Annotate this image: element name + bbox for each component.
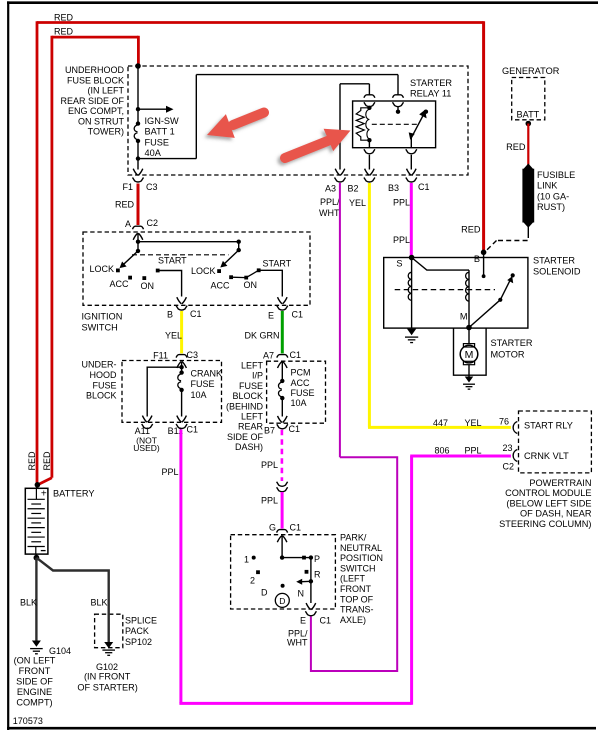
svg-text:C1: C1 xyxy=(290,523,302,533)
svg-text:B7: B7 xyxy=(264,426,275,436)
svg-text:(BEHIND: (BEHIND xyxy=(226,401,264,411)
svg-text:YEL: YEL xyxy=(165,331,182,341)
svg-text:STEERING COLUMN): STEERING COLUMN) xyxy=(499,519,591,529)
svg-text:1: 1 xyxy=(244,555,249,565)
svg-text:SWITCH: SWITCH xyxy=(340,563,376,573)
svg-text:IGNITION: IGNITION xyxy=(82,312,123,322)
svg-text:C1: C1 xyxy=(418,182,430,192)
svg-text:USED): USED) xyxy=(133,443,160,453)
svg-text:FRONT: FRONT xyxy=(19,666,51,676)
svg-text:M: M xyxy=(460,312,468,322)
svg-text:(BELOW LEFT SIDE: (BELOW LEFT SIDE xyxy=(506,498,591,508)
svg-text:WHT: WHT xyxy=(287,638,308,648)
svg-text:(IN FRONT: (IN FRONT xyxy=(84,672,131,682)
svg-text:C1: C1 xyxy=(320,616,332,626)
svg-text:B2: B2 xyxy=(347,184,358,194)
svg-text:R: R xyxy=(314,570,321,580)
svg-text:E: E xyxy=(268,311,274,321)
svg-text:170573: 170573 xyxy=(13,716,43,726)
svg-text:RED: RED xyxy=(461,225,481,235)
svg-text:ENG COMPT,: ENG COMPT, xyxy=(68,106,124,116)
svg-text:TOP OF: TOP OF xyxy=(340,594,374,604)
svg-text:10A: 10A xyxy=(191,390,207,400)
svg-text:UNDER-: UNDER- xyxy=(82,360,117,370)
svg-text:PPL/: PPL/ xyxy=(320,197,340,207)
svg-text:FUSIBLE: FUSIBLE xyxy=(537,170,575,180)
svg-text:LEFT: LEFT xyxy=(241,361,264,371)
svg-text:ACC: ACC xyxy=(211,281,231,291)
svg-text:(LEFT: (LEFT xyxy=(340,574,366,584)
svg-text:TRANS-: TRANS- xyxy=(340,605,374,615)
svg-text:GENERATOR: GENERATOR xyxy=(502,66,560,76)
svg-text:STARTER: STARTER xyxy=(491,338,533,348)
svg-text:MOTOR: MOTOR xyxy=(491,349,525,359)
svg-text:A7: A7 xyxy=(263,351,274,361)
svg-text:LINK: LINK xyxy=(537,181,558,191)
svg-text:STARTER: STARTER xyxy=(533,255,575,265)
svg-text:LOCK: LOCK xyxy=(191,266,216,276)
svg-text:447: 447 xyxy=(433,418,448,428)
svg-text:REAR: REAR xyxy=(238,422,264,432)
svg-text:B: B xyxy=(167,310,173,320)
svg-text:C1: C1 xyxy=(290,350,302,360)
svg-text:FUSE: FUSE xyxy=(291,388,315,398)
svg-text:PCM: PCM xyxy=(291,368,311,378)
svg-text:CONTROL MODULE: CONTROL MODULE xyxy=(505,488,591,498)
svg-text:FUSE BLOCK: FUSE BLOCK xyxy=(67,75,124,85)
svg-text:(IN LEFT: (IN LEFT xyxy=(87,86,124,96)
svg-text:RED: RED xyxy=(54,13,74,23)
svg-text:YEL: YEL xyxy=(465,418,482,428)
svg-text:START: START xyxy=(263,259,292,269)
svg-text:C3: C3 xyxy=(187,350,199,360)
svg-text:HOOD: HOOD xyxy=(90,370,118,380)
svg-text:M: M xyxy=(465,349,474,361)
svg-text:REAR SIDE OF: REAR SIDE OF xyxy=(60,96,124,106)
svg-text:LEFT: LEFT xyxy=(241,412,264,422)
svg-text:LOCK: LOCK xyxy=(89,264,114,274)
svg-text:PACK: PACK xyxy=(125,626,149,636)
svg-text:D: D xyxy=(261,588,268,598)
svg-text:+: + xyxy=(41,488,47,499)
svg-text:WHT: WHT xyxy=(319,208,340,218)
svg-text:G: G xyxy=(269,523,276,533)
svg-text:D: D xyxy=(279,596,285,606)
svg-text:OF DASH, NEAR: OF DASH, NEAR xyxy=(520,509,592,519)
svg-text:BLOCK: BLOCK xyxy=(86,391,117,401)
svg-text:RED: RED xyxy=(506,142,526,152)
svg-text:UNDERHOOD: UNDERHOOD xyxy=(65,65,125,75)
svg-text:C2: C2 xyxy=(503,462,515,472)
svg-text:ON: ON xyxy=(244,280,258,290)
svg-text:PPL: PPL xyxy=(465,446,482,456)
svg-text:ON STRUT: ON STRUT xyxy=(78,116,125,126)
svg-text:B3: B3 xyxy=(388,183,399,193)
svg-text:SP102: SP102 xyxy=(125,637,152,647)
svg-text:G102: G102 xyxy=(96,662,118,672)
svg-text:F1: F1 xyxy=(122,182,133,192)
svg-text:23: 23 xyxy=(503,443,513,453)
svg-text:P: P xyxy=(314,554,320,564)
svg-text:AXLE): AXLE) xyxy=(340,615,366,625)
svg-text:PPL: PPL xyxy=(393,235,410,245)
svg-text:F11: F11 xyxy=(153,351,168,361)
svg-text:ON: ON xyxy=(141,281,155,291)
svg-text:S: S xyxy=(396,259,402,269)
svg-text:C3: C3 xyxy=(146,182,158,192)
svg-text:I/P: I/P xyxy=(252,371,263,381)
svg-text:40A: 40A xyxy=(145,148,162,158)
svg-text:C1: C1 xyxy=(187,425,199,435)
svg-text:PPL: PPL xyxy=(393,198,410,208)
svg-text:TOWER): TOWER) xyxy=(88,127,124,137)
svg-text:C1: C1 xyxy=(289,424,301,434)
svg-text:A3: A3 xyxy=(325,184,336,194)
svg-text:10A: 10A xyxy=(291,398,307,408)
svg-text:DK GRN: DK GRN xyxy=(244,331,279,341)
svg-text:SPLICE: SPLICE xyxy=(125,616,157,626)
svg-text:2: 2 xyxy=(250,576,255,586)
svg-text:BATTERY: BATTERY xyxy=(53,489,95,499)
svg-text:OF STARTER): OF STARTER) xyxy=(77,682,137,692)
svg-text:A11: A11 xyxy=(135,426,150,436)
svg-text:FRONT: FRONT xyxy=(340,584,371,594)
svg-text:POWERTRAIN: POWERTRAIN xyxy=(529,478,591,488)
svg-text:FUSE: FUSE xyxy=(145,137,170,147)
svg-text:START: START xyxy=(158,256,187,266)
svg-text:NEUTRAL: NEUTRAL xyxy=(340,543,382,553)
svg-text:PPL: PPL xyxy=(161,467,178,477)
svg-text:C1: C1 xyxy=(292,310,304,320)
svg-text:ENGINE: ENGINE xyxy=(17,687,52,697)
svg-text:ACC: ACC xyxy=(110,279,130,289)
svg-text:SIDE OF: SIDE OF xyxy=(227,432,264,442)
svg-text:FUSE: FUSE xyxy=(239,381,263,391)
svg-text:SWITCH: SWITCH xyxy=(82,323,118,333)
svg-text:76: 76 xyxy=(499,417,509,427)
svg-text:POSITION: POSITION xyxy=(340,553,383,563)
svg-text:FUSE: FUSE xyxy=(92,380,116,390)
svg-text:BLK: BLK xyxy=(20,598,37,608)
svg-text:FUSE: FUSE xyxy=(191,379,215,389)
svg-text:PPL: PPL xyxy=(261,496,278,506)
svg-text:STARTER: STARTER xyxy=(410,78,452,88)
svg-text:IGN-SW: IGN-SW xyxy=(145,116,180,126)
svg-text:(10 GA-: (10 GA- xyxy=(537,191,569,201)
svg-text:N: N xyxy=(298,589,305,599)
svg-text:A: A xyxy=(125,219,131,229)
svg-text:BATT: BATT xyxy=(517,110,540,120)
svg-text:RED: RED xyxy=(54,27,74,37)
svg-text:CRNK VLT: CRNK VLT xyxy=(524,451,569,461)
svg-text:(ON LEFT: (ON LEFT xyxy=(14,655,56,665)
svg-text:C2: C2 xyxy=(147,218,159,228)
svg-text:806: 806 xyxy=(435,446,450,456)
svg-text:COMPT): COMPT) xyxy=(16,697,52,707)
svg-text:BLOCK: BLOCK xyxy=(232,391,263,401)
svg-text:CRANK: CRANK xyxy=(191,369,223,379)
svg-text:BATT 1: BATT 1 xyxy=(145,127,175,137)
svg-text:RED: RED xyxy=(115,200,135,210)
svg-text:E: E xyxy=(300,616,306,626)
svg-text:RELAY 11: RELAY 11 xyxy=(410,89,451,99)
svg-text:C1: C1 xyxy=(190,309,202,319)
svg-text:YEL: YEL xyxy=(349,198,366,208)
svg-text:DASH): DASH) xyxy=(235,442,263,452)
svg-text:BLK: BLK xyxy=(91,598,108,608)
svg-text:B: B xyxy=(474,254,480,264)
svg-text:RED: RED xyxy=(42,451,52,471)
svg-text:SOLENOID: SOLENOID xyxy=(533,267,581,277)
svg-text:ACC: ACC xyxy=(291,378,311,388)
svg-text:START RLY: START RLY xyxy=(524,421,573,431)
svg-text:RED: RED xyxy=(27,451,37,471)
svg-text:SIDE OF: SIDE OF xyxy=(16,676,53,686)
svg-text:RUST): RUST) xyxy=(537,202,565,212)
svg-text:PARK/: PARK/ xyxy=(340,533,367,543)
svg-text:PPL: PPL xyxy=(261,460,278,470)
